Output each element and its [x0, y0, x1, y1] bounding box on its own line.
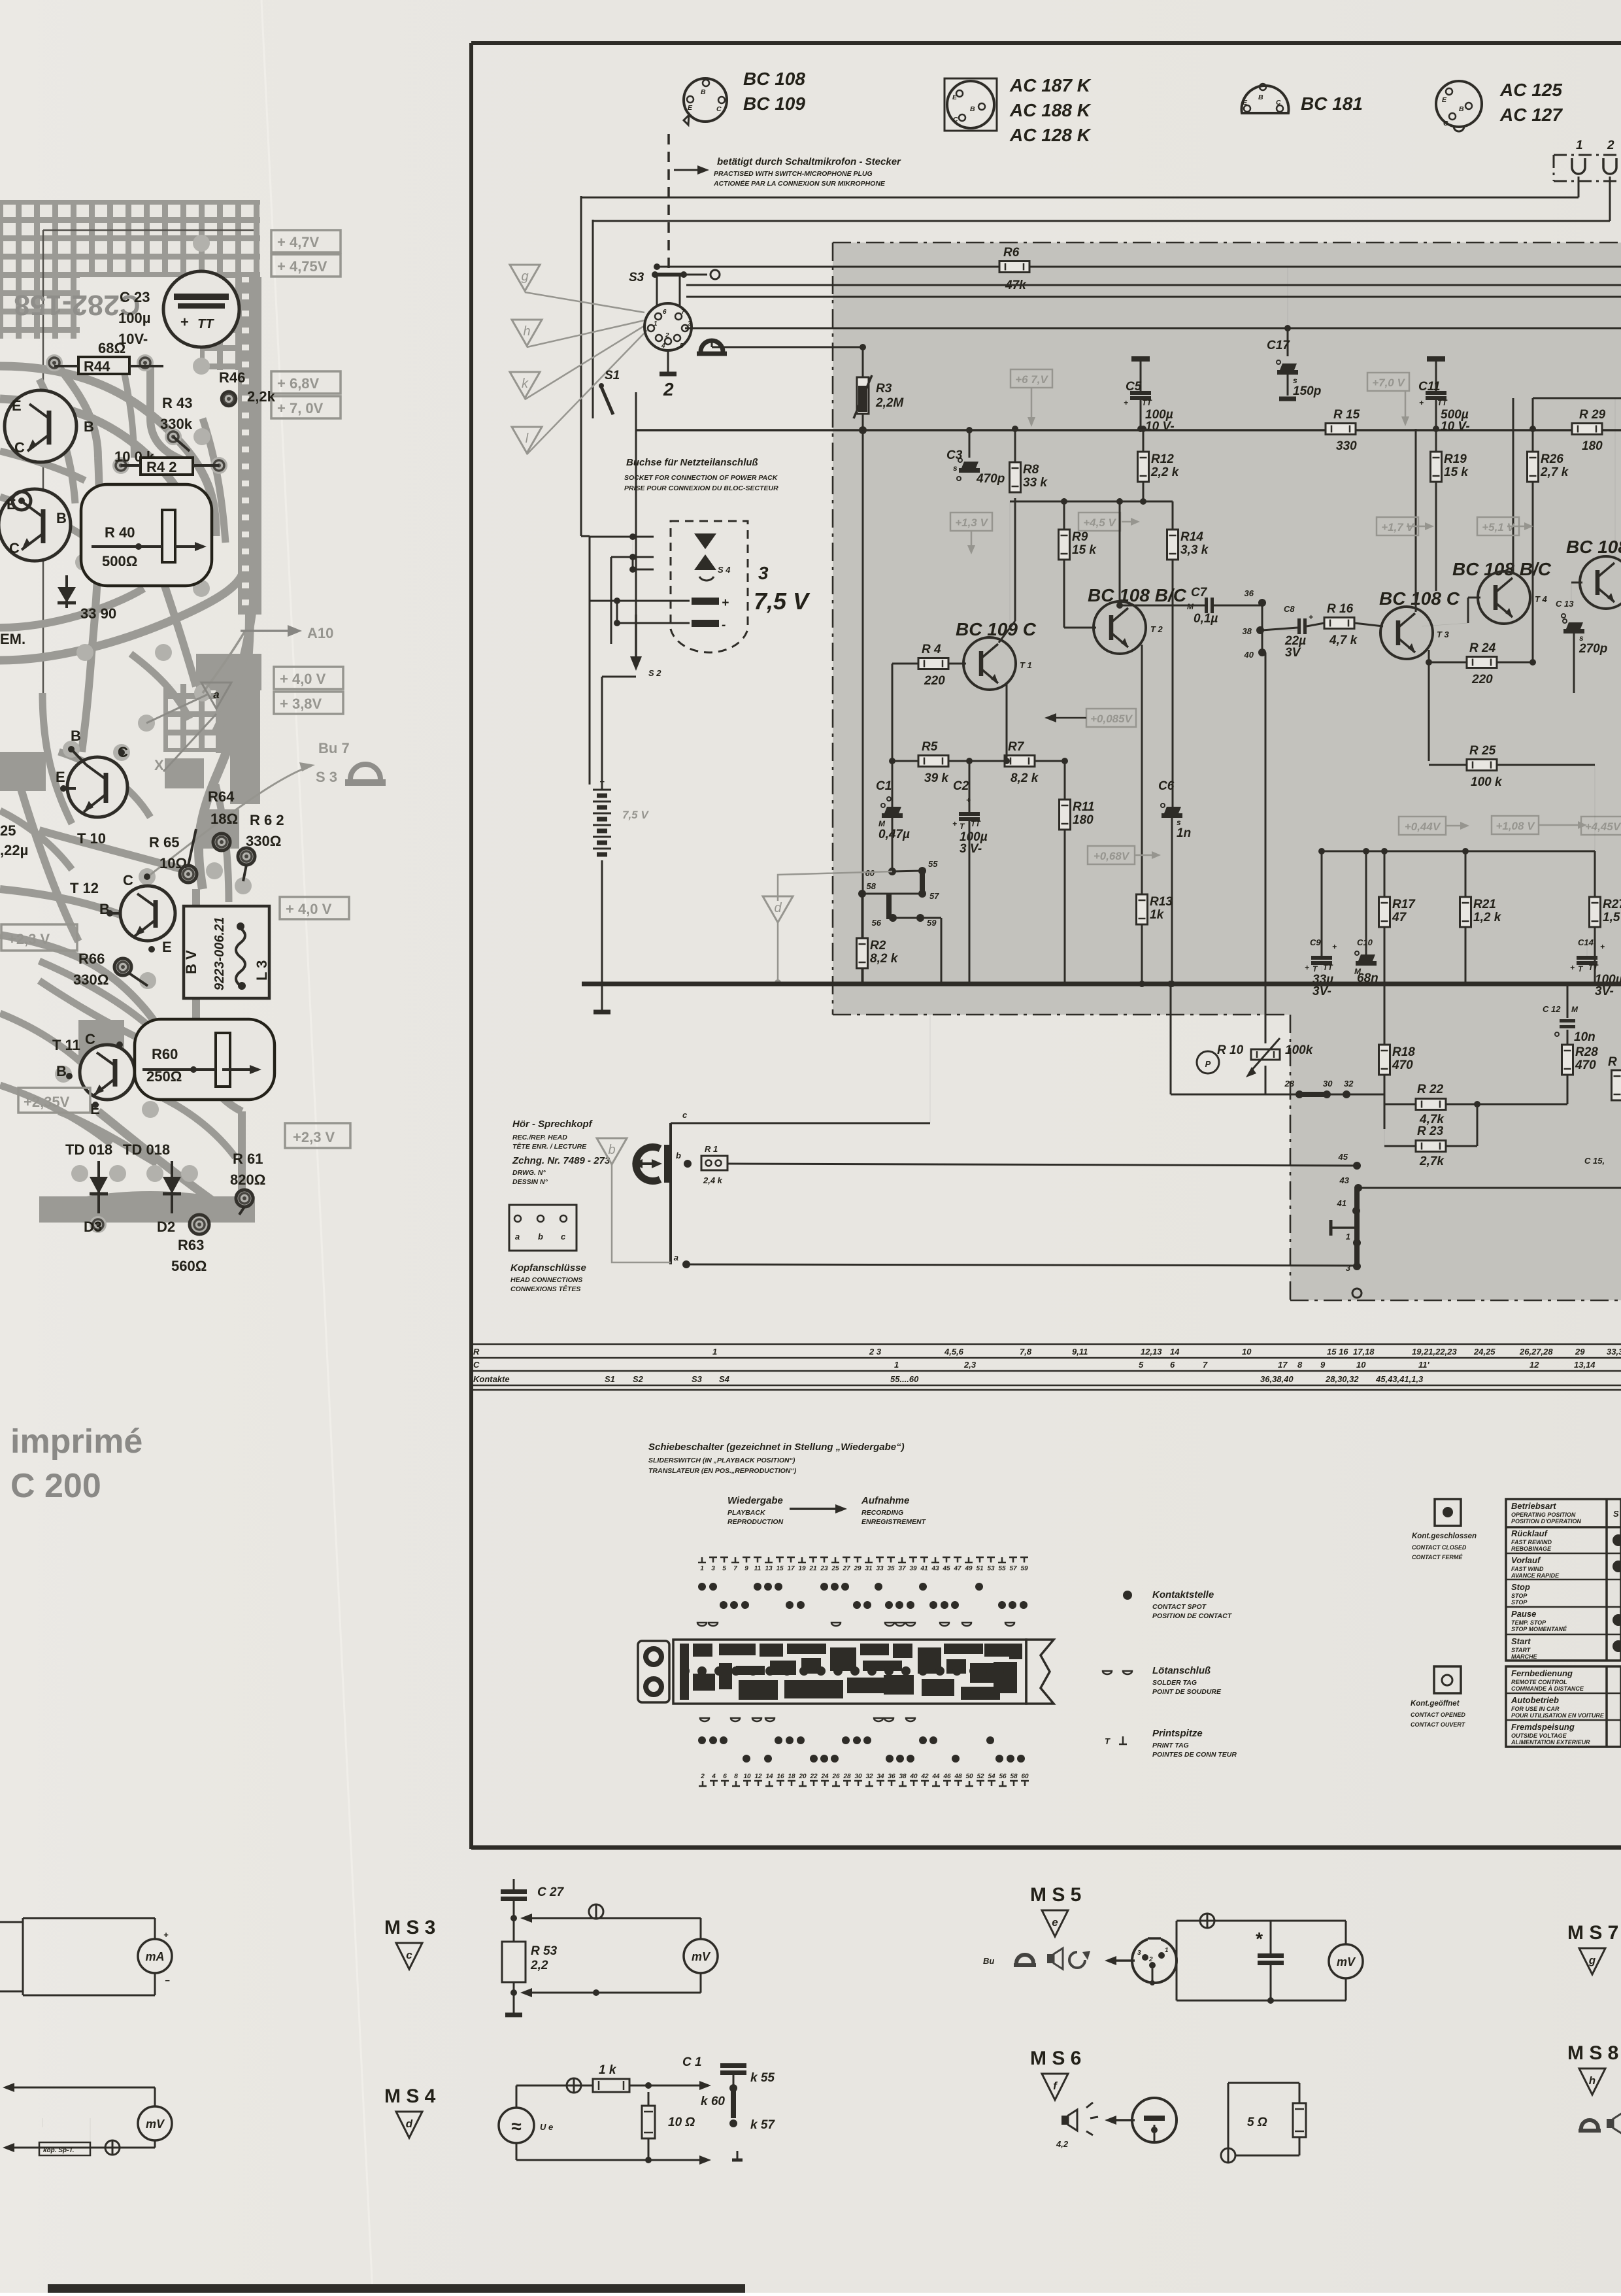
- record head: [632, 1145, 672, 1183]
- label 0,25 2,2u: [0, 822, 28, 858]
- pinout BC181: [1242, 84, 1363, 114]
- svg-text:c: c: [561, 1232, 566, 1241]
- svg-text:10: 10: [743, 1773, 751, 1780]
- capacitor C23: [118, 271, 239, 347]
- capacitor C13: [1556, 599, 1607, 693]
- svg-text:1n: 1n: [1177, 826, 1191, 840]
- svg-text:45,43,41,1,3: 45,43,41,1,3: [1375, 1374, 1424, 1384]
- svg-text:REPRODUCTION: REPRODUCTION: [727, 1518, 784, 1526]
- svg-text:R14: R14: [1180, 530, 1203, 544]
- svg-text:+ 4,75V: + 4,75V: [277, 258, 327, 275]
- contact spots row 3: [698, 1736, 994, 1744]
- svg-text:Autobetrieb: Autobetrieb: [1511, 1695, 1559, 1705]
- imprime C200 text: [10, 1423, 142, 1505]
- svg-text:10 V-: 10 V-: [1441, 420, 1470, 433]
- svg-text:R 6 2: R 6 2: [250, 812, 284, 828]
- MS5 DIN plug: [1132, 1936, 1177, 1985]
- svg-text:B V: B V: [183, 950, 199, 974]
- switch pin row even: [699, 1773, 1029, 1786]
- svg-text:7,5 V: 7,5 V: [622, 809, 649, 821]
- svg-text:+2,3 V: +2,3 V: [8, 931, 50, 947]
- resistor R1: [701, 1144, 727, 1185]
- svg-text:2,4 k: 2,4 k: [703, 1175, 723, 1185]
- svg-text:BC 108: BC 108: [743, 69, 805, 89]
- resistor R9: [1059, 530, 1097, 560]
- svg-text:Stop: Stop: [1511, 1582, 1530, 1592]
- svg-text:M: M: [1571, 1005, 1579, 1014]
- svg-text:d: d: [406, 2118, 413, 2130]
- capacitor C5: [1124, 356, 1175, 433]
- svg-text:AC 128 K: AC 128 K: [1009, 125, 1092, 145]
- svg-text:29: 29: [853, 1565, 861, 1572]
- svg-text:T 2: T 2: [1150, 624, 1163, 634]
- test point h: [512, 320, 542, 346]
- svg-text:60: 60: [865, 868, 875, 878]
- svg-text:4,2: 4,2: [1056, 2139, 1069, 2149]
- svg-text:T 1: T 1: [1020, 660, 1032, 670]
- svg-text:R 43: R 43: [162, 395, 192, 411]
- svg-text:CONTACT FERMÉ: CONTACT FERMÉ: [1412, 1554, 1463, 1561]
- svg-text:AC 127: AC 127: [1499, 105, 1563, 125]
- svg-text:mV: mV: [692, 1950, 711, 1963]
- svg-text:30: 30: [854, 1773, 862, 1780]
- svg-text:betätigt durch Schaltmikrofon: betätigt durch Schaltmikrofon - Stecker: [717, 156, 901, 167]
- svg-text:26: 26: [831, 1773, 840, 1780]
- svg-text:E: E: [56, 769, 65, 785]
- svg-text:TÊTE ENR. / LECTURE: TÊTE ENR. / LECTURE: [512, 1142, 587, 1151]
- svg-text:330: 330: [1336, 439, 1357, 453]
- svg-text:M S 4: M S 4: [384, 2085, 436, 2107]
- svg-text:2 3: 2 3: [869, 1347, 882, 1357]
- svg-text:58: 58: [1010, 1773, 1018, 1780]
- svg-text:s: s: [1177, 818, 1181, 827]
- contact spots row 4: [743, 1755, 1025, 1763]
- svg-text:BC 181: BC 181: [1301, 93, 1363, 114]
- resistor R29: [1529, 408, 1606, 453]
- svg-text:E: E: [688, 104, 693, 112]
- svg-text:+1,7 V: +1,7 V: [1381, 521, 1414, 533]
- MS4 marker: [384, 2085, 436, 2138]
- test point g: [510, 265, 540, 291]
- svg-text:14: 14: [765, 1773, 773, 1780]
- svg-text:+1,08 V: +1,08 V: [1496, 820, 1535, 832]
- svg-text:Lötanschluß: Lötanschluß: [1152, 1665, 1211, 1676]
- mode wiedergabe: [727, 1495, 784, 1526]
- svg-text:28: 28: [843, 1773, 851, 1780]
- resistor R13: [1137, 894, 1173, 987]
- svg-text:2: 2: [1148, 1956, 1153, 1963]
- svg-text:C2: C2: [953, 779, 969, 793]
- svg-text:9: 9: [744, 1565, 748, 1572]
- svg-text:49: 49: [964, 1565, 973, 1572]
- svg-text:k 57: k 57: [750, 2118, 775, 2132]
- svg-text:560Ω: 560Ω: [171, 1258, 207, 1274]
- MS7 marker: [1567, 1922, 1618, 1974]
- svg-text:29: 29: [1575, 1347, 1585, 1357]
- test point k: [510, 372, 540, 398]
- test point d: [763, 896, 793, 986]
- svg-text:+: +: [1332, 942, 1337, 951]
- svg-text:2: 2: [700, 1773, 705, 1780]
- svg-text:BC 109: BC 109: [743, 93, 805, 114]
- svg-text:C: C: [1443, 120, 1448, 127]
- svg-text:h: h: [523, 324, 530, 339]
- svg-text:36,38,40: 36,38,40: [1260, 1374, 1294, 1384]
- svg-text:55: 55: [998, 1565, 1006, 1572]
- label EM: [0, 631, 25, 647]
- svg-text:42: 42: [920, 1773, 929, 1780]
- svg-text:R 10: R 10: [1217, 1043, 1244, 1057]
- resistor R28: [1562, 1045, 1599, 1104]
- svg-text:56: 56: [999, 1773, 1007, 1780]
- svg-text:POSITION DE CONTACT: POSITION DE CONTACT: [1152, 1612, 1233, 1620]
- resistor R15: [1326, 408, 1360, 453]
- svg-text:TEMP. STOP: TEMP. STOP: [1511, 1619, 1546, 1626]
- svg-text:2,2: 2,2: [530, 1959, 548, 1972]
- MS8 symbols: [1579, 2113, 1621, 2134]
- svg-text:d: d: [774, 901, 782, 915]
- svg-text:58: 58: [867, 881, 877, 891]
- svg-text:+: +: [1305, 963, 1309, 972]
- svg-text:+0,44V: +0,44V: [1405, 820, 1441, 833]
- svg-text:CONTACT OUVERT: CONTACT OUVERT: [1411, 1721, 1466, 1728]
- MS8 marker: [1567, 2042, 1618, 2095]
- transistor (PCB lower-left): [0, 489, 71, 561]
- diode D2: [157, 1161, 181, 1235]
- svg-text:R 23: R 23: [1417, 1124, 1444, 1138]
- slider switch note: [648, 1442, 905, 1475]
- svg-text:AC 125: AC 125: [1499, 80, 1562, 100]
- svg-text:≈: ≈: [511, 2116, 522, 2136]
- svg-text:180: 180: [1582, 439, 1603, 453]
- svg-text:4,5,6: 4,5,6: [944, 1347, 964, 1357]
- svg-text:R44: R44: [84, 358, 110, 375]
- voltage tag +0,085V: [1044, 709, 1136, 727]
- svg-text:COMMANDE À DISTANCE: COMMANDE À DISTANCE: [1511, 1685, 1584, 1692]
- svg-text:Rücklauf: Rücklauf: [1511, 1528, 1548, 1538]
- svg-text:E: E: [162, 939, 172, 955]
- svg-text:6: 6: [723, 1773, 727, 1780]
- bus line 1: [654, 263, 1621, 270]
- svg-text:Kopfanschlüsse: Kopfanschlüsse: [510, 1262, 586, 1274]
- svg-text:B: B: [1459, 105, 1464, 113]
- resistor R4: [892, 643, 966, 688]
- voltage box +2,3V (low): [285, 1123, 350, 1148]
- wire contact 45: [727, 1152, 1361, 1170]
- svg-text:B: B: [56, 1063, 67, 1079]
- svg-text:3 V-: 3 V-: [960, 842, 982, 856]
- svg-text:T 12: T 12: [70, 880, 99, 896]
- svg-text:T 4: T 4: [1535, 594, 1548, 604]
- voltage box +4,0V (T12): [280, 897, 349, 919]
- capacitor C17: [1267, 267, 1321, 399]
- svg-text:41: 41: [1337, 1198, 1346, 1208]
- svg-text:2,2M: 2,2M: [875, 396, 904, 410]
- svg-text:TT: TT: [1142, 398, 1152, 407]
- test point b: [597, 1138, 671, 1262]
- resistor R46: [219, 369, 276, 406]
- svg-text:470: 470: [1392, 1058, 1413, 1072]
- svg-text:C 200: C 200: [10, 1467, 101, 1505]
- svg-text:a: a: [515, 1232, 520, 1241]
- svg-text:c: c: [406, 1949, 412, 1961]
- svg-text:M S 5: M S 5: [1030, 1884, 1081, 1906]
- resistor R23: [1384, 1101, 1480, 1168]
- svg-text:R 61: R 61: [233, 1151, 263, 1167]
- svg-text:10: 10: [1356, 1360, 1366, 1370]
- svg-text:Fernbedienung: Fernbedienung: [1511, 1668, 1573, 1678]
- svg-text:POINTES DE CONN TEUR: POINTES DE CONN TEUR: [1152, 1751, 1237, 1759]
- svg-text:STOP: STOP: [1511, 1599, 1528, 1606]
- svg-text:+: +: [1419, 398, 1424, 407]
- svg-text:C14: C14: [1578, 937, 1594, 947]
- svg-text:Pause: Pause: [1511, 1609, 1536, 1619]
- svg-text:R7: R7: [1008, 740, 1025, 754]
- head connections label: [510, 1262, 586, 1293]
- socket ground: [660, 350, 677, 399]
- svg-text:R12: R12: [1151, 452, 1174, 466]
- resistor R63: [171, 1215, 209, 1274]
- legend print tag: [1105, 1728, 1237, 1759]
- mode table text: [1511, 1501, 1619, 1660]
- svg-text:1: 1: [700, 1565, 704, 1572]
- svg-text:+: +: [722, 596, 729, 610]
- wire emitter row: [889, 758, 1068, 764]
- switch S3: [629, 270, 720, 307]
- svg-text:8,2 k: 8,2 k: [870, 952, 899, 966]
- svg-text:E: E: [1442, 96, 1447, 104]
- svg-text:B: B: [1258, 93, 1263, 101]
- transistor T3 BC108C: [1379, 588, 1460, 659]
- legend solder tag: [1103, 1665, 1222, 1696]
- svg-text:39: 39: [909, 1565, 917, 1572]
- svg-text:ACTIONÉE PAR LA CONNEXION SUR: ACTIONÉE PAR LA CONNEXION SUR MIKROPHONE: [713, 179, 886, 188]
- svg-text:1 k: 1 k: [599, 2063, 617, 2077]
- svg-text:36: 36: [888, 1773, 895, 1780]
- transistor T10: [56, 728, 128, 847]
- resistor R17: [1379, 851, 1416, 984]
- svg-text:43: 43: [1339, 1175, 1350, 1185]
- svg-text:s: s: [1579, 633, 1584, 643]
- svg-text:21: 21: [809, 1565, 817, 1572]
- contact 3: [1346, 1262, 1361, 1273]
- svg-text:E: E: [1243, 99, 1248, 107]
- svg-text:10: 10: [1242, 1347, 1252, 1357]
- svg-text:mV: mV: [146, 2118, 165, 2131]
- head wire a: [674, 1253, 1357, 1268]
- svg-text:35: 35: [887, 1565, 895, 1572]
- test point l: [512, 427, 542, 453]
- legend contact spot: [1123, 1589, 1233, 1620]
- contact closed symbol: [1435, 1499, 1461, 1526]
- svg-text:54: 54: [988, 1773, 995, 1780]
- svg-text:3: 3: [1137, 1950, 1141, 1957]
- contact open circle: [1352, 1289, 1362, 1298]
- svg-text:Zchng. Nr. 7489 - 273: Zchng. Nr. 7489 - 273: [512, 1155, 610, 1166]
- svg-text:*: *: [1255, 1929, 1263, 1949]
- table row C: [894, 1360, 1596, 1370]
- svg-text:R18: R18: [1392, 1045, 1415, 1059]
- svg-text:C1: C1: [876, 779, 892, 793]
- switch S1: [599, 369, 620, 414]
- resistor R8: [1010, 426, 1048, 492]
- svg-text:5 Ω: 5 Ω: [1247, 2116, 1267, 2129]
- table row Kontakte: [605, 1374, 1424, 1384]
- battery holder dashed box: [671, 521, 748, 652]
- contact row 28 30 32: [1265, 1079, 1384, 1098]
- solder tag row below: [700, 1718, 915, 1721]
- svg-text:17,18: 17,18: [1353, 1347, 1375, 1357]
- inner bus line 2 (mic pin2): [593, 220, 1610, 418]
- svg-text:−: −: [165, 1976, 170, 1985]
- svg-text:57: 57: [929, 891, 939, 901]
- svg-text:R64: R64: [208, 788, 235, 805]
- capacitor C11: [1418, 356, 1470, 433]
- svg-text:E: E: [952, 93, 958, 101]
- svg-text:Kont.geschlossen: Kont.geschlossen: [1412, 1532, 1477, 1540]
- svg-text:41: 41: [920, 1565, 928, 1572]
- wire contact 43: [1339, 1175, 1621, 1192]
- wire T1 emitter lead: [1003, 684, 1010, 764]
- bus line 3: [686, 296, 1621, 298]
- resistor R42: [114, 448, 219, 475]
- svg-text:470: 470: [1575, 1058, 1596, 1072]
- MS6 plug: [1132, 2098, 1177, 2142]
- svg-text:PLAYBACK: PLAYBACK: [727, 1509, 766, 1517]
- voltage box +6,8V: [271, 371, 341, 394]
- svg-text:STOP MOMENTANÉ: STOP MOMENTANÉ: [1511, 1626, 1567, 1632]
- paper crease: [261, 0, 373, 2293]
- resistor R16: [1324, 602, 1383, 647]
- svg-text:REBOBINAGE: REBOBINAGE: [1511, 1545, 1552, 1552]
- svg-text:53: 53: [987, 1565, 995, 1572]
- svg-text:SOCKET FOR CONNECTION OF P: SOCKET FOR CONNECTION OF POWER PACK: [624, 474, 778, 482]
- svg-text:e: e: [1052, 1916, 1058, 1929]
- supply rail: [636, 426, 1621, 434]
- svg-text:k 55: k 55: [750, 2071, 775, 2085]
- svg-text:AVANCE RAPIDE: AVANCE RAPIDE: [1511, 1572, 1560, 1579]
- resistor R11: [1060, 761, 1095, 984]
- svg-text:ALIMENTATION EXTERIEUR: ALIMENTATION EXTERIEUR: [1511, 1739, 1590, 1746]
- svg-text:2,7k: 2,7k: [1419, 1155, 1445, 1168]
- svg-text:51: 51: [976, 1565, 984, 1572]
- resistor R25: [1429, 744, 1595, 789]
- transistor T1 BC109C: [956, 619, 1037, 690]
- svg-text:24,25: 24,25: [1473, 1347, 1496, 1357]
- svg-text:MARCHE: MARCHE: [1511, 1653, 1537, 1660]
- svg-text:R11: R11: [1073, 800, 1094, 814]
- svg-text:2: 2: [665, 332, 669, 339]
- svg-text:R2: R2: [870, 939, 886, 953]
- svg-text:7: 7: [733, 1565, 737, 1572]
- contacts 55-60: [858, 859, 941, 984]
- svg-text:D3: D3: [84, 1219, 102, 1235]
- svg-text:59: 59: [1020, 1565, 1028, 1572]
- svg-text:T 10: T 10: [77, 830, 106, 847]
- svg-text:REC./REP. HEAD: REC./REP. HEAD: [512, 1134, 567, 1141]
- solder tag row: [697, 1623, 1014, 1626]
- mA meter circuit: [0, 1918, 172, 1995]
- svg-text:+ 7, 0V: + 7, 0V: [277, 400, 324, 416]
- svg-text:b: b: [608, 1143, 615, 1157]
- MS6 speaker: [1056, 2102, 1135, 2149]
- voltage tag +5,1V: [1477, 517, 1533, 535]
- svg-text:+ 6,8V: + 6,8V: [277, 375, 320, 392]
- svg-text:TT: TT: [1437, 398, 1448, 407]
- svg-text:Printspitze: Printspitze: [1152, 1728, 1203, 1739]
- svg-text:1: 1: [1576, 139, 1583, 152]
- svg-text:mA: mA: [145, 1950, 164, 1963]
- board number 282-158: [14, 289, 140, 321]
- mV meter circuit: [3, 2083, 172, 2155]
- net A10: [203, 625, 333, 693]
- svg-text:Kont.geöffnet: Kont.geöffnet: [1411, 1700, 1460, 1708]
- svg-text:C17: C17: [1267, 339, 1290, 352]
- svg-text:AC 187 K: AC 187 K: [1009, 75, 1092, 95]
- capacitor C10: [1354, 851, 1379, 985]
- svg-text:17: 17: [1278, 1360, 1288, 1370]
- mode table grid: [1506, 1499, 1621, 1661]
- svg-text:S 2: S 2: [648, 668, 661, 678]
- svg-text:EM.: EM.: [0, 631, 25, 647]
- svg-text:25: 25: [831, 1565, 839, 1572]
- resistor R22: [1384, 1083, 1567, 1129]
- svg-text:15 k: 15 k: [1072, 543, 1097, 557]
- svg-text:R 29: R 29: [1579, 408, 1606, 422]
- svg-text:34: 34: [877, 1773, 884, 1780]
- head wire c: [671, 1015, 930, 1123]
- capacitor C8: [1262, 604, 1324, 660]
- wires to battery box: [581, 533, 690, 785]
- svg-text:M S 3: M S 3: [384, 1917, 435, 1938]
- wire emitter rows right: [1322, 848, 1595, 854]
- svg-text:Wiedergabe: Wiedergabe: [727, 1495, 783, 1506]
- PCB pads: [46, 235, 255, 1233]
- resistor R61: [230, 1151, 265, 1215]
- svg-text:+: +: [952, 819, 957, 828]
- svg-text:mV: mV: [1337, 1955, 1356, 1968]
- svg-text:R26: R26: [1541, 452, 1563, 466]
- svg-text:M: M: [1187, 602, 1194, 611]
- svg-text:13,14: 13,14: [1574, 1360, 1596, 1370]
- svg-text:1k: 1k: [1150, 908, 1165, 922]
- bottom page edge: [48, 2284, 745, 2293]
- svg-text:47: 47: [1392, 911, 1407, 924]
- contact bar: [1354, 1188, 1360, 1268]
- svg-text:CONNEXIONS TÊTES: CONNEXIONS TÊTES: [510, 1285, 580, 1293]
- wire T5 collector: [1533, 398, 1621, 429]
- svg-text:R 24: R 24: [1469, 641, 1496, 655]
- svg-text:12,13: 12,13: [1141, 1347, 1162, 1357]
- ground battery: [593, 984, 610, 1012]
- svg-text:12: 12: [1529, 1360, 1539, 1370]
- MS6 circuit: [1221, 2083, 1306, 2163]
- svg-text:TT: TT: [197, 317, 214, 331]
- pinout AC125 AC127: [1436, 80, 1563, 131]
- svg-text:28,30,32: 28,30,32: [1325, 1374, 1359, 1384]
- svg-text:TD 018: TD 018: [65, 1141, 112, 1158]
- svg-text:CONTACT CLOSED: CONTACT CLOSED: [1412, 1544, 1467, 1551]
- svg-text:h: h: [1589, 2074, 1596, 2087]
- transistor T5: [1566, 398, 1621, 609]
- svg-text:5: 5: [722, 1565, 726, 1572]
- svg-text:33,34: 33,34: [1607, 1347, 1621, 1357]
- svg-text:Vorlauf: Vorlauf: [1511, 1555, 1541, 1565]
- svg-text:R 22: R 22: [1417, 1083, 1444, 1096]
- svg-text:1: 1: [654, 320, 658, 328]
- svg-text:ENREGISTREMENT: ENREGISTREMENT: [861, 1518, 927, 1526]
- svg-text:R28: R28: [1575, 1045, 1598, 1059]
